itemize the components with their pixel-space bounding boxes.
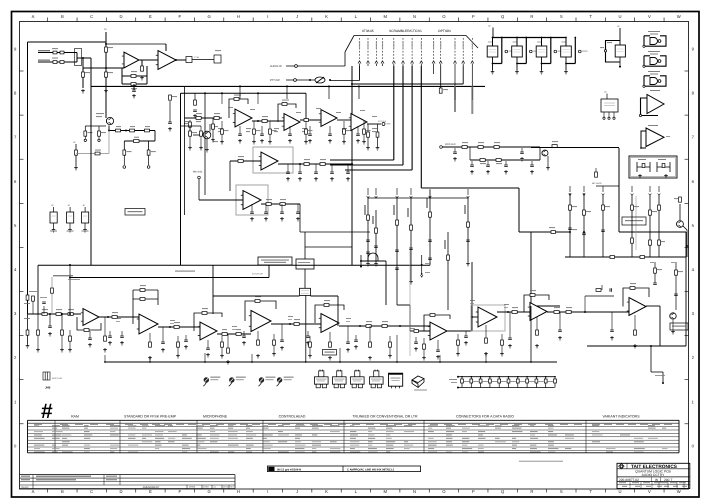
wire block left edge bbox=[90, 58, 92, 265]
svg-text:MOD AUD: MOD AUD bbox=[445, 143, 456, 146]
resistor R202 bbox=[82, 72, 85, 77]
extra right-bottom parts bbox=[654, 262, 656, 283]
svg-text:U: U bbox=[618, 489, 621, 494]
wire T3-T4 bbox=[337, 119, 351, 121]
op-amp A7 bbox=[478, 307, 497, 327]
svg-text:CONNECTORS FOR A DATA RADIO: CONNECTORS FOR A DATA RADIO bbox=[456, 415, 514, 419]
mic input line 1 bbox=[38, 52, 77, 54]
svg-text:AMENDMENT: AMENDMENT bbox=[143, 486, 160, 489]
svg-text:RAM: RAM bbox=[71, 415, 79, 419]
note box right bbox=[635, 196, 637, 250]
svg-text:JH5: JH5 bbox=[45, 386, 51, 390]
parts table column header micro text bbox=[34, 424, 672, 425]
feedback resistor R205 bbox=[122, 83, 147, 85]
ground bbox=[81, 89, 85, 93]
svg-text:S: S bbox=[560, 14, 563, 19]
wire bottom rail bbox=[105, 361, 557, 363]
bottom band extra parts bbox=[109, 331, 111, 336]
wire U5 in bbox=[199, 199, 243, 201]
wire mod to right bbox=[539, 147, 541, 160]
resistors on trunk bbox=[42, 313, 47, 316]
op-amp U4 with shield loop bbox=[253, 147, 293, 173]
svg-text:J: J bbox=[296, 14, 298, 19]
svg-text:D: D bbox=[120, 14, 123, 19]
op-amp U1b bbox=[158, 51, 176, 70]
svg-text:V: V bbox=[648, 489, 651, 494]
wire down from jumper bbox=[305, 296, 307, 363]
resistor hang left bbox=[123, 141, 125, 150]
svg-text:STANDARD OR FFSK PRE-EMP: STANDARD OR FFSK PRE-EMP bbox=[124, 415, 177, 419]
svg-text:W: W bbox=[677, 489, 681, 494]
logic gate G1 bbox=[644, 36, 666, 46]
vertical drop x448 bbox=[447, 232, 449, 310]
wire T1-T2 bbox=[252, 120, 284, 122]
feedback resistor R204 bbox=[146, 66, 148, 84]
svg-text:T: T bbox=[589, 14, 592, 19]
svg-text:MICROPHONE: MICROPHONE bbox=[203, 415, 228, 419]
wire U5 out bbox=[261, 203, 300, 205]
op-amp U3b bbox=[351, 114, 367, 131]
wire A7 out bbox=[497, 311, 530, 313]
sprinkle parts top chain bbox=[218, 128, 223, 129]
svg-text:U: U bbox=[618, 14, 621, 19]
svg-text:#: # bbox=[41, 400, 53, 423]
svg-text:CHKD: CHKD bbox=[203, 486, 209, 489]
mod aud row1 bbox=[442, 146, 540, 148]
svg-text:220-00877-02: 220-00877-02 bbox=[619, 478, 639, 482]
svg-text:N: N bbox=[413, 14, 416, 19]
svg-text:J: J bbox=[296, 489, 298, 494]
wire y277 left bbox=[70, 277, 269, 279]
parts table grid bbox=[28, 420, 680, 453]
connector icon CN4 bbox=[374, 371, 379, 377]
digi plug icon bbox=[43, 372, 50, 380]
issue bar bbox=[268, 466, 421, 472]
svg-text:C AMPRO/AC LINE 4W 94X 98: C AMPRO/AC LINE 4W 94X 98T/5CL2 bbox=[347, 468, 395, 471]
grid reference letters top bbox=[32, 14, 681, 21]
wire block top trunk bbox=[91, 85, 485, 87]
A6 feedback bbox=[424, 315, 450, 331]
svg-text:B: B bbox=[61, 14, 64, 19]
A4 feedback bbox=[245, 301, 276, 321]
caps under U4 bbox=[287, 164, 289, 172]
svg-text:P: P bbox=[472, 14, 475, 19]
svg-text:CONTROLHEAD: CONTROLHEAD bbox=[279, 415, 306, 419]
svg-text:H: H bbox=[237, 14, 240, 19]
A6 out bbox=[447, 330, 472, 332]
transistor Q4 bbox=[670, 313, 676, 319]
svg-text:M: M bbox=[383, 14, 387, 19]
parts left of T1 bbox=[194, 100, 197, 105]
crystal chip X5 bbox=[565, 38, 567, 47]
wire pin elbow to block bbox=[462, 66, 464, 84]
svg-text:MIC MUTE: MIC MUTE bbox=[592, 182, 603, 185]
wire right trunk bbox=[618, 148, 620, 232]
svg-text:APVD: APVD bbox=[223, 486, 229, 489]
A7 surround bbox=[471, 305, 505, 331]
mod aud row2 bbox=[470, 159, 540, 161]
svg-text:AST AF O/P: AST AF O/P bbox=[252, 273, 264, 276]
mic input line 2 bbox=[38, 61, 77, 63]
chains right x650 bbox=[649, 196, 651, 257]
wire mic join bbox=[76, 53, 78, 63]
wire block right edge bbox=[351, 66, 353, 265]
wire down from U4 bbox=[229, 161, 231, 191]
vertical drop x411 bbox=[410, 198, 412, 280]
vertical drop x368 bbox=[367, 198, 369, 262]
A1 under parts bbox=[89, 331, 91, 338]
diode ladder bbox=[458, 376, 555, 378]
svg-text:VARIANT INDICATORS: VARIANT INDICATORS bbox=[602, 415, 640, 419]
op-amp U6 right column bbox=[641, 98, 659, 116]
extra parts mid columns bbox=[366, 252, 370, 254]
A2 feedback box bbox=[133, 299, 158, 324]
op-amp A8 bbox=[530, 303, 547, 321]
op-amp U3a bbox=[321, 110, 337, 127]
svg-text:JD: JD bbox=[104, 28, 107, 31]
svg-text:H: H bbox=[237, 489, 240, 494]
op-amp A9 bbox=[629, 298, 646, 316]
wire emitter trunk bbox=[108, 126, 110, 131]
capacitor C21 bbox=[132, 90, 136, 92]
label ERF AF bbox=[53, 275, 73, 276]
wire trunk mid right bbox=[421, 187, 519, 189]
svg-text:E: E bbox=[149, 489, 152, 494]
scrambler connector pins bbox=[360, 38, 473, 60]
pf600 label box right bbox=[670, 323, 688, 330]
svg-text:C: C bbox=[90, 489, 93, 494]
mid column top pins bbox=[367, 196, 370, 198]
svg-text:I: I bbox=[267, 489, 268, 494]
op-amp A5 bbox=[321, 314, 339, 333]
wire right bottom rail bbox=[587, 345, 686, 347]
svg-text:BW O/DL: BW O/DL bbox=[193, 171, 203, 174]
jumper link bbox=[315, 77, 325, 83]
A9 out bbox=[646, 305, 660, 307]
connector icon CN2 bbox=[337, 371, 342, 377]
svg-text:A: A bbox=[32, 489, 35, 494]
svg-text:AUDIO CCTRY: AUDIO CCTRY bbox=[642, 473, 665, 477]
A8 under bbox=[536, 317, 538, 330]
wire block second trunk bbox=[181, 92, 307, 94]
A9 under bbox=[634, 315, 636, 330]
relay icon square bbox=[389, 373, 403, 386]
mic connector housing bbox=[75, 49, 82, 66]
jumper mid bbox=[304, 269, 306, 288]
wire top-left trunk bbox=[28, 41, 107, 43]
logic gate G3 bbox=[644, 76, 666, 86]
vertical drop x397 bbox=[396, 198, 398, 305]
A4 out bbox=[271, 323, 321, 325]
resistor R203 bbox=[105, 72, 108, 77]
A9 feedback bbox=[623, 288, 649, 307]
wire h296 bbox=[213, 295, 300, 297]
op-amp U5 with shield loop bbox=[236, 185, 268, 215]
transistor Q2b bbox=[203, 131, 211, 139]
mic mute part bbox=[595, 172, 598, 177]
second trunk drops bbox=[221, 93, 223, 104]
resistor chain x603 bbox=[602, 196, 604, 257]
short pin stub bbox=[433, 66, 435, 74]
A3 out bbox=[217, 333, 251, 335]
A1 feedback bbox=[77, 317, 101, 330]
resistor R201 bbox=[105, 47, 108, 52]
vertical drop x430 bbox=[429, 190, 431, 265]
parts on right trunk bbox=[552, 145, 557, 148]
transistor Q1 bbox=[105, 100, 107, 117]
A5 feedback bbox=[315, 305, 344, 323]
wire T4 out bbox=[367, 123, 381, 125]
svg-text:B: B bbox=[61, 489, 64, 494]
svg-text:PTT O/P: PTT O/P bbox=[270, 79, 280, 82]
elbow bottom right bbox=[650, 346, 652, 372]
left drop parts bbox=[26, 295, 29, 300]
pin marks mid cluster bbox=[421, 264, 423, 266]
svg-text:T: T bbox=[589, 489, 592, 494]
wire y265 left bbox=[37, 265, 39, 314]
svg-text:I: I bbox=[267, 14, 268, 19]
transistor Q3 right bbox=[677, 221, 684, 228]
wire bus vertical bbox=[90, 60, 92, 87]
svg-text:G: G bbox=[207, 489, 210, 494]
op-amp U1a bbox=[124, 52, 139, 68]
A3 feedback bbox=[194, 313, 222, 331]
parts table body micro text bbox=[34, 425, 668, 453]
A5 out bbox=[339, 325, 432, 327]
svg-text:DRWN: DRWN bbox=[189, 486, 196, 489]
pin part x440 bbox=[440, 66, 442, 88]
wire left rail bbox=[27, 42, 29, 314]
gray sense wire bbox=[108, 131, 110, 154]
svg-text:W: W bbox=[677, 14, 681, 19]
3d box icon bbox=[412, 376, 424, 387]
A2 out bbox=[158, 326, 200, 328]
resistor chain x584 bbox=[583, 193, 585, 257]
fx600 label box bbox=[323, 350, 337, 356]
wire into A6 bbox=[397, 304, 410, 306]
svg-text:F: F bbox=[178, 14, 181, 19]
A5 under bbox=[329, 332, 331, 342]
wire right bottom trunk bbox=[565, 256, 686, 258]
wire second row bbox=[154, 131, 156, 142]
svg-text:8T3K45: 8T3K45 bbox=[362, 29, 374, 33]
feedback loop U2a bbox=[229, 99, 248, 118]
A3 under bbox=[207, 340, 209, 348]
mid column parts bbox=[169, 101, 171, 122]
A1 out wire bbox=[99, 316, 139, 318]
op-amp U2a bbox=[235, 109, 252, 127]
Q2 bias parts bbox=[189, 131, 192, 136]
boxed pair assembly bbox=[629, 156, 677, 178]
wire block left inner edge bbox=[180, 93, 182, 265]
svg-text:W: W bbox=[655, 478, 658, 482]
svg-text:R: R bbox=[530, 489, 533, 494]
mod aud grounds bbox=[454, 148, 456, 152]
caps under U5 bbox=[251, 204, 253, 212]
wire pin to PTT line bbox=[359, 66, 361, 81]
hanging parts under chain outputs bbox=[221, 121, 223, 129]
svg-text:N: N bbox=[413, 489, 416, 494]
ground bbox=[104, 89, 108, 93]
wire mid right vertical bbox=[530, 232, 532, 306]
svg-text:M: M bbox=[383, 489, 387, 494]
wire long mid horizontal bbox=[38, 264, 430, 266]
scrambler stub labels bbox=[454, 66, 456, 100]
trimpot VR1 bbox=[204, 377, 209, 382]
bias parts left of Q1 bbox=[85, 125, 106, 127]
title block bbox=[617, 463, 690, 488]
left upper parts near trunk bbox=[32, 296, 35, 301]
op-amp A4 bbox=[251, 311, 271, 332]
svg-text:A: A bbox=[32, 14, 35, 19]
svg-text:G: G bbox=[207, 14, 210, 19]
wire op out bbox=[176, 59, 186, 61]
svg-text:V: V bbox=[648, 14, 651, 19]
A8 out bbox=[547, 311, 629, 313]
svg-text:DIGI PLUG: DIGI PLUG bbox=[52, 377, 63, 380]
extra specks chain bbox=[228, 107, 233, 108]
grid reference numbers right bbox=[685, 47, 695, 449]
chains right x632 bbox=[631, 196, 633, 257]
grid reference numbers left bbox=[14, 47, 23, 449]
svg-text:R: R bbox=[530, 14, 533, 19]
crystal chip X3 bbox=[516, 38, 518, 47]
feedback loop U2b bbox=[278, 104, 296, 122]
op-amp U6b below bbox=[641, 131, 646, 148]
A7 under bbox=[485, 325, 487, 338]
resistor R206 bbox=[141, 66, 144, 71]
svg-text:TRUNKED OR CONVENTIONAL OR LTR: TRUNKED OR CONVENTIONAL OR LTR bbox=[352, 415, 418, 419]
crystal chip X2 bbox=[492, 38, 494, 47]
label AST AF bbox=[175, 271, 195, 272]
tait logo diamond bbox=[619, 464, 624, 469]
crystal chip X4 bbox=[541, 38, 543, 47]
wire chain input bbox=[185, 117, 223, 119]
svg-text:E: E bbox=[149, 14, 152, 19]
top cluster of mid area bbox=[360, 255, 362, 267]
note box bbox=[125, 209, 145, 216]
wire U4 out bbox=[278, 163, 352, 165]
wire audio to banner bbox=[344, 52, 346, 66]
svg-text:K: K bbox=[325, 14, 328, 19]
svg-text:0N 13 grb #2/209-N: 0N 13 grb #2/209-N bbox=[277, 468, 301, 471]
op-amp A3 bbox=[200, 322, 217, 340]
svg-text:K: K bbox=[325, 489, 328, 494]
revision table bbox=[20, 475, 236, 489]
grid reference letters bottom bbox=[32, 489, 681, 494]
op-amp U2b bbox=[284, 114, 300, 131]
svg-text:S: S bbox=[560, 489, 563, 494]
scrambler bus wires down bbox=[393, 66, 395, 160]
svg-text:P3 CXL6: P3 CXL6 bbox=[378, 120, 387, 123]
svg-text:F: F bbox=[178, 489, 181, 494]
svg-text:SCRAMBLER/CTCSS: SCRAMBLER/CTCSS bbox=[389, 29, 422, 33]
chains right x659 bbox=[658, 196, 660, 257]
svg-text:TR-500: TR-500 bbox=[21, 486, 30, 489]
svg-text:C: C bbox=[90, 14, 93, 19]
A9 input network bbox=[584, 296, 586, 312]
label box left mid bbox=[193, 369, 195, 371]
svg-text:D: D bbox=[120, 489, 123, 494]
svg-text:29C T: 29C T bbox=[664, 478, 673, 482]
fx cable label box bbox=[258, 257, 292, 265]
caps under chain bbox=[239, 126, 241, 134]
relay box top bbox=[296, 259, 314, 269]
connector icon CN1 bbox=[319, 371, 324, 377]
A2 under bbox=[149, 333, 151, 342]
resistor chain x570 bbox=[569, 193, 571, 257]
op-amp A2 bbox=[139, 314, 158, 334]
A4 under bbox=[257, 331, 259, 340]
connector pad 17 B1 bbox=[186, 57, 192, 63]
wire stage2 fb bbox=[165, 44, 167, 51]
svg-text:17 B1: 17 B1 bbox=[194, 56, 200, 59]
logic gate G2 bbox=[644, 56, 666, 66]
svg-text:AUDIO I/P: AUDIO I/P bbox=[270, 65, 282, 68]
vertical drop x468 bbox=[467, 198, 469, 262]
wire to C bus bbox=[82, 58, 84, 88]
note above title block bbox=[519, 461, 563, 462]
resistor hang right bbox=[148, 141, 150, 150]
vertical drop x376 bbox=[375, 210, 377, 262]
op-amp A6 bbox=[430, 322, 447, 340]
trunk drops into loops bbox=[239, 86, 241, 99]
svg-text:P: P bbox=[472, 489, 475, 494]
svg-text:OPTION: OPTION bbox=[438, 29, 451, 33]
wire h bbox=[83, 67, 124, 69]
wire bottom trunk y314 bbox=[28, 313, 82, 315]
wire mid connects bbox=[299, 204, 301, 232]
op-amp A1 bbox=[83, 309, 99, 326]
wire T2-T3 bbox=[300, 119, 321, 121]
resistor R301 bbox=[196, 117, 201, 120]
A8 feedback bbox=[524, 295, 549, 312]
wire right edge bbox=[685, 232, 687, 346]
connector icon CN3 bbox=[355, 371, 360, 377]
A6 under bbox=[437, 340, 439, 350]
